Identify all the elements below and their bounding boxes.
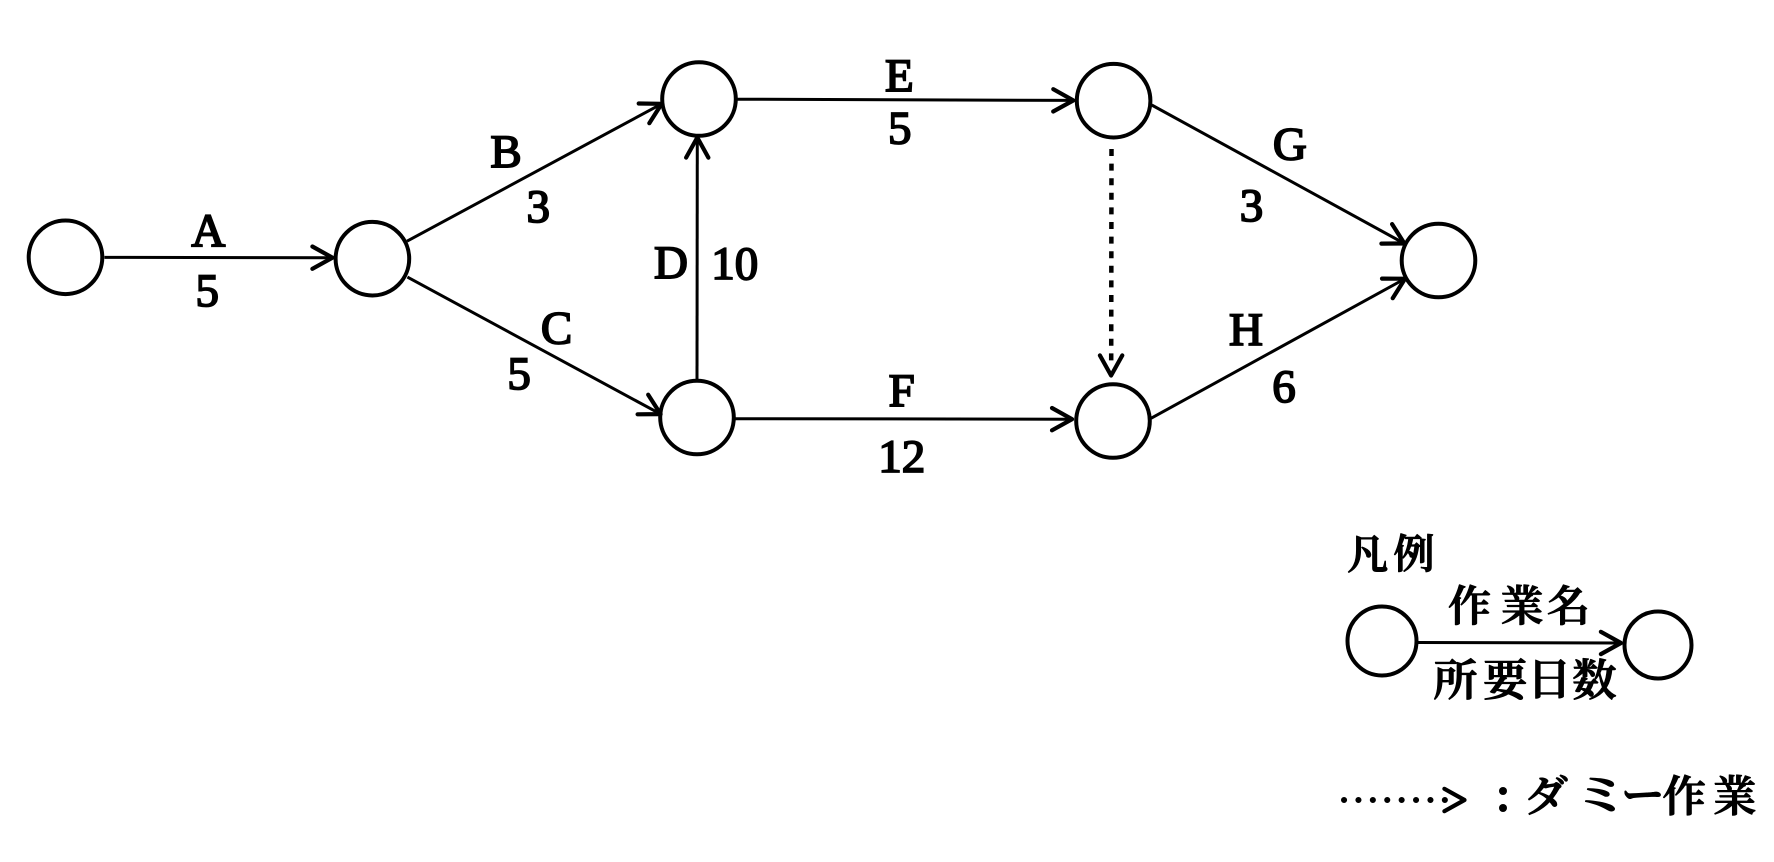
arrow activity E (3->5) xyxy=(738,99,1074,100)
legend kanji SU (数) of 所要日数 xyxy=(1574,658,1616,699)
legend sample arrow xyxy=(1418,641,1621,645)
svg-text:10: 10 xyxy=(711,238,758,290)
legend kanji YO (要) of 所要日数 xyxy=(1485,658,1526,699)
legend kanji NICHI (日) of 所要日数 xyxy=(1536,660,1565,699)
svg-text:5: 5 xyxy=(888,103,912,155)
node 1 (start event) xyxy=(29,220,103,294)
svg-text:5: 5 xyxy=(507,348,531,400)
arrow activity H (6->7) xyxy=(1151,279,1405,419)
legend katakana MI (ミ) xyxy=(1586,778,1615,811)
node 5 xyxy=(1077,64,1151,138)
legend kanji GYO (業) of 作業名 xyxy=(1502,585,1542,625)
svg-text:E: E xyxy=(885,50,914,102)
legend kanji SA (作) of ダミー作業 xyxy=(1663,775,1704,815)
svg-text:G: G xyxy=(1273,119,1307,171)
svg-text:B: B xyxy=(490,126,521,178)
legend katakana DA (ダ) xyxy=(1528,775,1567,815)
node 2 xyxy=(336,222,410,296)
svg-text:H: H xyxy=(1229,304,1263,356)
legend kanji MEI (名) of 作業名 xyxy=(1548,585,1587,625)
dotted dummy arrow (5->6) xyxy=(1109,149,1114,362)
arrow activity B (2->3) xyxy=(407,104,662,241)
legend katakana long vowel mark (ー) xyxy=(1625,791,1660,799)
legend title kanji BON (凡) xyxy=(1348,535,1387,572)
arrow activity A (1->2) xyxy=(105,256,333,259)
svg-text:6: 6 xyxy=(1272,361,1296,413)
svg-text:3: 3 xyxy=(527,181,551,233)
svg-text:12: 12 xyxy=(878,431,925,483)
node 4 xyxy=(660,381,734,455)
legend title kanji REI (例) xyxy=(1394,534,1432,572)
node 6 xyxy=(1076,384,1150,458)
svg-text:5: 5 xyxy=(196,265,220,317)
arrow activity D (4->3) xyxy=(696,138,699,380)
svg-text:A: A xyxy=(191,205,225,257)
svg-text:D: D xyxy=(654,237,688,289)
svg-text:3: 3 xyxy=(1240,180,1264,232)
legend left node xyxy=(1348,607,1417,676)
legend kanji SHO (所) of 所要日数 xyxy=(1434,658,1476,699)
node 3 xyxy=(662,62,736,136)
node 7 (end event) xyxy=(1402,224,1476,298)
legend dotted dummy arrow sample xyxy=(1344,797,1446,803)
legend colon xyxy=(1499,787,1507,795)
legend right node xyxy=(1625,612,1692,679)
arrow activity G (5->7) xyxy=(1152,105,1405,244)
legend kanji SA (作) of 作業名 xyxy=(1449,585,1490,625)
svg-text:F: F xyxy=(889,365,915,417)
arrow activity F (4->6) xyxy=(736,417,1073,421)
arrow activity C (2->4) xyxy=(407,277,660,414)
svg-text:C: C xyxy=(541,303,572,355)
legend kanji GYO (業) of ダミー作業 xyxy=(1715,775,1755,815)
